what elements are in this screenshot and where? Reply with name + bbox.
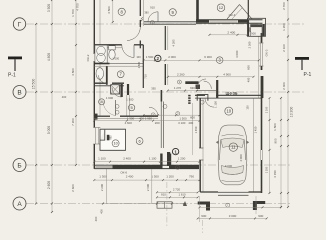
- dim line left segments: [51, 0, 53, 212]
- svg-text:2 100: 2 100: [282, 44, 286, 52]
- room bubble 5: [128, 104, 134, 110]
- svg-text:2 700: 2 700: [282, 2, 286, 10]
- node circle small b: [115, 110, 119, 114]
- room bubble 8: [118, 8, 125, 15]
- node circle 3: [176, 112, 180, 116]
- wall utility vertical: [216, 80, 218, 98]
- window ОК-2: [95, 54, 97, 62]
- svg-text:600: 600: [190, 116, 195, 120]
- svg-text:400: 400: [188, 121, 193, 125]
- svg-text:4 000: 4 000: [239, 154, 243, 162]
- svg-text:900: 900: [201, 214, 206, 218]
- svg-text:2 600: 2 600: [71, 184, 75, 192]
- node circle small a: [115, 105, 119, 109]
- svg-text:400: 400: [139, 117, 144, 121]
- section marker P-1 left: [8, 57, 22, 60]
- svg-text:1 150: 1 150: [214, 101, 218, 108]
- svg-text:1 610: 1 610: [179, 193, 186, 197]
- svg-text:2 400: 2 400: [123, 156, 131, 160]
- svg-text:1 550: 1 550: [265, 166, 269, 173]
- door bath leaf: [133, 45, 135, 58]
- window ОК-3: [259, 43, 261, 66]
- entrance pier left: [160, 154, 162, 166]
- room bubble 6: [136, 138, 143, 145]
- svg-text:4 000: 4 000: [235, 50, 239, 58]
- svg-text:1 450: 1 450: [254, 126, 258, 133]
- svg-text:600: 600: [247, 65, 251, 70]
- svg-text:3 000: 3 000: [229, 214, 237, 218]
- dim row axis A: [103, 203, 184, 205]
- wall right of flue: [120, 84, 122, 97]
- chimney block: [248, 18, 266, 36]
- svg-text:10: 10: [227, 109, 232, 114]
- svg-text:1 500: 1 500: [146, 55, 154, 59]
- svg-text:4 800: 4 800: [47, 53, 51, 61]
- dim row y90: [168, 90, 197, 92]
- svg-text:ОК-3: ОК-3: [265, 49, 269, 56]
- wall rooms 4-5: [127, 84, 129, 95]
- svg-text:1 800: 1 800: [273, 123, 277, 131]
- door arc room8: [127, 27, 140, 41]
- wall garage top: [196, 90, 216, 92]
- svg-text:4 600: 4 600: [125, 121, 133, 125]
- svg-text:395: 395: [151, 87, 156, 91]
- dim garage right inner: [269, 98, 271, 193]
- svg-text:1 950: 1 950: [145, 117, 153, 121]
- wall right exterior: [261, 33, 263, 43]
- wall hall top: [94, 82, 106, 84]
- room bubble 10 garage: [225, 107, 233, 115]
- node circle x: [200, 100, 204, 104]
- svg-text:А: А: [17, 201, 22, 208]
- svg-text:15 500: 15 500: [32, 79, 36, 90]
- svg-text:10: 10: [113, 142, 117, 146]
- svg-text:12: 12: [219, 5, 224, 10]
- svg-text:2 000: 2 000: [168, 55, 176, 59]
- svg-text:1 100: 1 100: [265, 106, 269, 113]
- wall garage right: [253, 98, 255, 192]
- svg-text:4 700: 4 700: [76, 3, 80, 11]
- axis line Б: [26, 164, 290, 166]
- dim row garage front y218.4: [198, 217, 267, 219]
- wall corridor below stairs: [160, 102, 162, 149]
- flue shaft X: [111, 85, 120, 94]
- svg-text:2 600: 2 600: [146, 183, 150, 191]
- svg-text:г: г: [227, 204, 228, 207]
- door arc hall1: [197, 79, 206, 88]
- svg-text:13 200: 13 200: [290, 107, 294, 118]
- garage gate: [218, 191, 249, 193]
- dim line right inner: [280, 98, 282, 207]
- svg-text:Р-1: Р-1: [304, 72, 312, 78]
- wall bottom exterior: [94, 164, 199, 166]
- room bubble 12: [217, 4, 225, 12]
- wall closet right: [106, 66, 108, 85]
- dim row y77: [168, 76, 254, 78]
- svg-text:2 600: 2 600: [47, 181, 51, 189]
- svg-text:900: 900: [274, 138, 278, 143]
- svg-text:400: 400: [94, 216, 98, 221]
- svg-text:380: 380: [144, 11, 149, 15]
- door arc room4: [112, 88, 122, 98]
- flue hatch room10: [107, 135, 110, 141]
- svg-text:1 700: 1 700: [71, 9, 75, 17]
- node circle в: [176, 165, 180, 169]
- node circle x: [163, 104, 167, 108]
- entrance pier right: [169, 154, 171, 166]
- svg-text:910: 910: [150, 6, 155, 10]
- room bubble 7: [117, 71, 124, 78]
- porch outline verticals: [106, 169, 108, 204]
- entrance jamb: [167, 152, 170, 166]
- car mirrors: [216, 141, 219, 145]
- axis line В: [26, 91, 306, 93]
- stairs hatch: [188, 95, 190, 97]
- svg-text:710: 710: [144, 74, 148, 79]
- axis bubble Г: [13, 18, 25, 30]
- dim row y60: [144, 59, 259, 61]
- svg-text:1 200: 1 200: [282, 23, 286, 31]
- dim line porch vertical: [192, 103, 194, 155]
- bathtub: [95, 45, 107, 63]
- wall room8 bottom: [94, 44, 122, 46]
- dim row y207 right: [200, 206, 282, 208]
- dim room8 vertical: [112, 0, 114, 22]
- svg-text:810: 810: [161, 193, 166, 197]
- wall room12 left: [196, 0, 199, 20]
- svg-text:ОК-2: ОК-2: [86, 54, 90, 61]
- svg-text:900: 900: [258, 214, 263, 218]
- wall garage left: [199, 98, 201, 148]
- window left lower: [95, 128, 97, 145]
- svg-text:4 900: 4 900: [223, 72, 231, 76]
- axis bubble 1 inline: [172, 148, 178, 154]
- axis bubble А: [13, 197, 26, 210]
- svg-text:2 720: 2 720: [173, 188, 181, 192]
- axis bubble Б: [13, 159, 26, 172]
- window ОК-6: [95, 166, 112, 168]
- svg-text:790: 790: [189, 175, 194, 179]
- pier left wall low: [94, 114, 98, 120]
- wall room7 right: [142, 45, 144, 88]
- svg-text:6 300: 6 300: [204, 55, 212, 59]
- wall central vertical: [164, 26, 166, 50]
- wall axis Г interior: [144, 21, 196, 23]
- svg-text:100: 100: [136, 55, 141, 59]
- svg-text:Б: Б: [17, 162, 21, 169]
- toilet: [109, 46, 116, 50]
- node circle 2: [151, 113, 155, 117]
- node circle 3: [177, 80, 181, 84]
- svg-text:400: 400: [100, 209, 104, 214]
- window garage right: [259, 150, 261, 160]
- wall room8 right: [139, 0, 141, 16]
- svg-text:5 000: 5 000: [47, 126, 51, 134]
- utility fixture: [196, 85, 201, 90]
- svg-text:2 200: 2 200: [100, 183, 104, 191]
- wall left exterior low: [93, 144, 95, 169]
- dim row y120.7 texts: [94, 120, 199, 122]
- svg-text:3 100: 3 100: [178, 121, 186, 125]
- wall bottom fill: [113, 165, 163, 168]
- svg-text:В: В: [17, 89, 21, 96]
- leader lines: [199, 196, 201, 222]
- section marker P-1 right: [295, 57, 309, 60]
- svg-text:1 200: 1 200: [166, 175, 174, 179]
- room bubble 4: [99, 99, 105, 105]
- svg-text:1 300: 1 300: [151, 175, 159, 179]
- room bubble 3: [216, 57, 223, 64]
- svg-text:2 400: 2 400: [126, 175, 134, 179]
- door arc hall2: [204, 81, 212, 89]
- door arc closet: [99, 75, 107, 83]
- wall top-right exterior: [196, 19, 263, 21]
- dim row bottom1 y161.7: [94, 161, 199, 163]
- svg-text:1 600: 1 600: [106, 96, 114, 100]
- svg-text:2 260: 2 260: [177, 72, 185, 76]
- svg-text:Р-1: Р-1: [8, 73, 16, 79]
- svg-text:1 000: 1 000: [112, 57, 119, 61]
- svg-text:1 200: 1 200: [178, 156, 186, 160]
- svg-text:985: 985: [110, 135, 113, 140]
- svg-text:2 680: 2 680: [137, 61, 141, 68]
- door arc garage: [205, 98, 214, 107]
- svg-text:7 200: 7 200: [71, 118, 75, 126]
- node circle г: [226, 203, 230, 207]
- svg-text:4 000: 4 000: [225, 164, 233, 168]
- dim line inner left chain: [75, 0, 77, 165]
- door leaf room4-10: [115, 100, 117, 116]
- vent diagonals: [227, 5, 240, 20]
- wall mid horizontal: [94, 115, 110, 117]
- svg-text:2 300: 2 300: [248, 41, 252, 48]
- axis bubble В: [13, 86, 26, 99]
- svg-text:4 500: 4 500: [107, 6, 111, 14]
- svg-text:Г: Г: [18, 21, 22, 28]
- gate post right: [253, 201, 265, 210]
- svg-text:630: 630: [190, 86, 195, 90]
- svg-text:11: 11: [231, 145, 236, 150]
- svg-text:4 150: 4 150: [273, 170, 277, 178]
- svg-text:1 300: 1 300: [126, 98, 134, 102]
- svg-text:1 450: 1 450: [194, 126, 198, 133]
- wall bathroom bottom: [94, 63, 109, 65]
- room bubble 11: [229, 143, 237, 151]
- entrance steps: [157, 202, 172, 208]
- entrance arrow: [183, 201, 187, 206]
- svg-text:400: 400: [62, 95, 67, 99]
- dim line total 15500: [35, 24, 37, 204]
- room 10 outline: [100, 129, 126, 150]
- svg-text:1: 1: [174, 149, 177, 154]
- entrance axis dash: [166, 182, 168, 228]
- room bubble 9: [169, 9, 176, 16]
- svg-text:200: 200: [155, 121, 160, 125]
- svg-text:1 100: 1 100: [98, 156, 106, 160]
- axis line Г: [26, 23, 306, 25]
- dim line right segments: [287, 0, 289, 207]
- svg-text:900: 900: [248, 27, 252, 32]
- wall room12 right: [247, 0, 249, 18]
- svg-text:4 800: 4 800: [71, 68, 75, 76]
- wall left exterior mid: [93, 62, 95, 128]
- svg-text:2 400: 2 400: [227, 31, 235, 35]
- svg-text:1 270: 1 270: [174, 86, 182, 90]
- svg-text:3 500: 3 500: [47, 4, 51, 12]
- gate post left: [198, 202, 210, 211]
- svg-text:1 100: 1 100: [149, 156, 157, 160]
- svg-text:2 400: 2 400: [282, 82, 286, 90]
- room bubble 10 left: [112, 140, 119, 147]
- dim row y116: [144, 114, 200, 116]
- window ОК-4: [210, 20, 238, 22]
- car body: [218, 125, 247, 185]
- svg-text:130: 130: [246, 105, 250, 110]
- svg-text:1 300: 1 300: [99, 175, 107, 179]
- svg-text:400: 400: [247, 77, 251, 82]
- node circle 2: [150, 21, 154, 25]
- stair edge: [160, 90, 162, 102]
- sink closet: [96, 68, 104, 80]
- door arc room9 top: [148, 12, 158, 22]
- dim row bottom2 y180: [94, 179, 199, 181]
- wall left exterior: [93, 0, 95, 54]
- wall step: [197, 95, 208, 101]
- door arc room6: [149, 107, 158, 116]
- svg-text:Щ-9 ОБ: Щ-9 ОБ: [226, 92, 238, 96]
- axis line А: [26, 203, 290, 205]
- svg-text:4 285: 4 285: [172, 39, 176, 46]
- axis bubble 2 inline: [155, 55, 161, 61]
- pier hall: [185, 81, 198, 84]
